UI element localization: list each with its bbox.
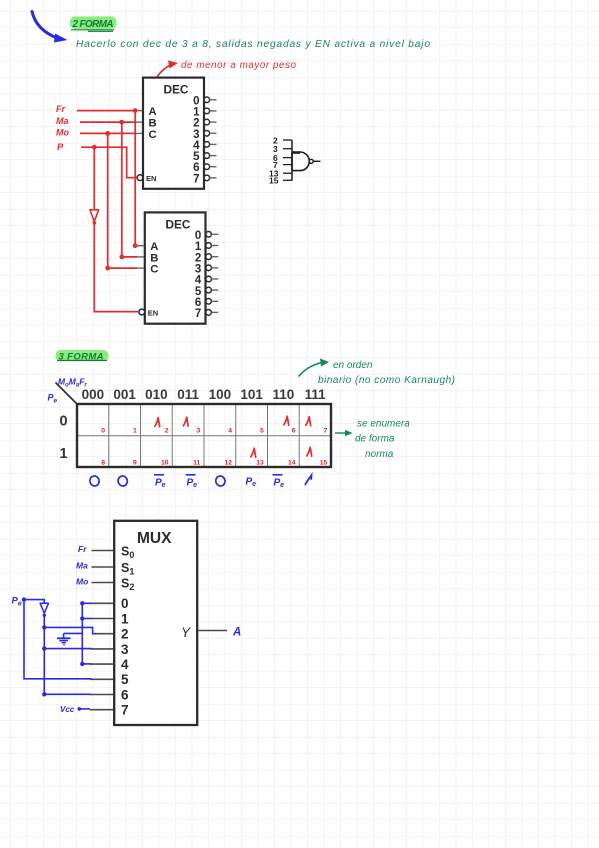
svg-text:101: 101 [240,387,263,402]
node gnd to pin4 [80,662,91,666]
svg-text:001: 001 [113,387,136,402]
svg-text:1: 1 [193,106,200,118]
svg-text:6: 6 [193,162,199,174]
U3 output pin Y [181,625,227,640]
truth table variable label MoMaFr (blue) [58,377,87,389]
column value 1 (col 111) [305,475,311,484]
svg-text:Vcc: Vcc [60,705,75,714]
svg-text:9: 9 [133,459,137,466]
column value /Pe (col 011) [186,475,198,489]
svg-text:2: 2 [193,118,199,130]
svg-text:110: 110 [273,387,295,402]
wire Pe to pin5 [24,600,92,679]
svg-text:15: 15 [320,459,328,466]
net label Vcc (blue) [60,705,75,714]
truth table variable label Pe (blue) [48,393,58,405]
note text: Hacerlo con dec de 3 a 8 [76,39,430,50]
svg-text:7: 7 [324,428,328,435]
mark 1 in cell 2 [155,418,160,427]
inverter (red triangle) on P line [90,210,99,225]
svg-text:DEC: DEC [166,218,191,232]
NAND gate G1 (hand drawn) [292,152,321,171]
wire Ma to U1.B [80,120,136,125]
svg-text:A: A [232,627,241,639]
column value 0 (col 000) [89,475,100,487]
svg-text:12: 12 [224,459,232,466]
svg-text:2: 2 [121,627,129,642]
svg-text:A: A [149,106,157,118]
svg-text:111: 111 [305,387,327,402]
svg-text:1: 1 [60,446,68,462]
svg-text:7: 7 [121,703,129,718]
svg-text:11: 11 [193,459,200,466]
node gnd to pin0 [80,601,91,605]
U3 data pins 0-7 [90,596,129,717]
decoder U1 (DEC 3-to-8, top) [137,78,204,189]
wire Ma vertical to U2.B [119,122,137,259]
svg-text:7: 7 [195,308,201,320]
G1 pin 13 [269,169,292,179]
U2 input stubs A B C [137,246,144,268]
wire /Pe vertical [43,615,45,694]
U2 output pins 0-7 with bubbles [195,230,218,320]
svg-text:EN: EN [148,309,158,318]
svg-text:8: 8 [101,459,105,466]
svg-text:Y: Y [181,625,191,640]
svg-text:Mo: Mo [56,128,69,138]
mark 1 in cell 7 [306,417,311,426]
wire /P to U2.EN [94,223,138,312]
node /Pe to pin3 [42,646,91,650]
cell minterm numbers row 0 [101,428,327,435]
column value Pe (col 101) [246,477,257,489]
svg-text:1: 1 [195,241,202,253]
wire Fr to U1.A [77,108,138,113]
G1 pin 6 [273,153,292,163]
net label Pe (blue) [12,596,22,608]
svg-text:0: 0 [60,414,68,430]
svg-text:Ma: Ma [76,561,88,571]
column value /Pe (col 110) [273,475,285,489]
svg-text:3: 3 [121,642,129,657]
select label Fr (blue) [78,544,87,554]
U3 select pins S0 S1 S2 [92,545,135,593]
wire P vertical to inverter [93,147,95,210]
svg-text:binario (no como Karnaugh): binario (no como Karnaugh) [318,375,455,386]
svg-text:Hacerlo con dec de 3 a 8, sali: Hacerlo con dec de 3 a 8, salidas negada… [76,39,430,50]
ground symbol [57,633,71,644]
svg-text:13: 13 [256,459,264,466]
svg-text:4: 4 [121,657,129,672]
svg-text:010: 010 [145,387,168,402]
wire ground to bus [64,632,83,634]
svg-text:14: 14 [288,459,296,466]
annotation green arrow: en orden binario [299,359,455,387]
G1 pin 2 [273,136,292,146]
note title 2 FORMA (highlighted) [70,17,117,32]
node /Pe to pin2 [42,625,96,634]
signal label Mo (red) [56,128,69,138]
svg-text:0: 0 [101,428,105,435]
svg-text:2 FORMA: 2 FORMA [72,19,114,30]
svg-text:5: 5 [260,428,264,435]
mark 1 in cell 3 [183,417,188,426]
svg-text:C: C [150,264,158,276]
svg-text:de menor a mayor peso: de menor a mayor peso [181,60,297,71]
signal label P (red) [57,142,64,153]
wire Mo to U1.C [80,131,136,136]
ground bus vertical [81,603,83,664]
signal label Fr (red) [56,104,65,114]
svg-text:4: 4 [228,428,232,435]
svg-text:en orden: en orden [333,360,373,371]
truth table grid [77,404,331,467]
wire Pe to inverter [24,600,44,604]
mark 1 in cell 13 [251,448,256,457]
svg-text:C: C [149,129,157,141]
signal label Ma (red) [56,116,69,126]
svg-text:6: 6 [121,687,129,702]
wire Mo vertical to U2.C [105,133,137,270]
mark 1 in cell 15 [307,447,312,456]
svg-text:norma: norma [365,449,394,460]
svg-text:100: 100 [209,387,232,402]
svg-text:se enumera: se enumera [357,419,410,430]
wire Fr vertical to U2.A [133,111,140,249]
wire P to U1.EN (stepped) [81,145,137,178]
multiplexer U3 (MUX 8-to-1) [114,521,197,725]
svg-text:Mo: Mo [76,577,88,587]
svg-text:2: 2 [195,252,201,264]
G1 pin 15 [269,176,292,186]
svg-text:6: 6 [292,428,296,435]
annotation blue arrow [32,12,68,43]
row header 1 [60,446,68,462]
column value /Pe (col 010) [154,475,166,489]
note title 3 FORMA (highlighted) [56,350,109,363]
select label Ma (blue) [76,561,88,571]
svg-text:EN: EN [146,174,156,183]
annotation green arrow: se enumera de forma normal [335,419,410,461]
select label Mo (blue) [76,577,88,587]
node Pe [22,597,26,601]
node /Pe to pin6 [42,692,91,696]
svg-text:10: 10 [161,459,169,466]
svg-text:3: 3 [197,428,201,435]
svg-text:de forma: de forma [355,434,395,445]
svg-text:B: B [149,118,157,130]
svg-text:1: 1 [133,428,137,435]
node gnd to pin1 [80,616,91,620]
svg-text:Fr: Fr [78,544,87,554]
svg-text:Ma: Ma [56,116,69,126]
svg-text:011: 011 [177,387,199,402]
svg-text:000: 000 [82,387,105,402]
svg-text:2: 2 [165,428,169,435]
svg-text:7: 7 [193,173,199,185]
svg-text:6: 6 [195,297,201,309]
svg-text:5: 5 [121,672,129,687]
G1 pin 3 [273,144,292,154]
U1 input stubs A B C [135,111,142,134]
svg-text:P: P [57,142,64,153]
svg-text:DEC: DEC [164,83,189,97]
annotation red arrow: de menor a mayor peso [150,60,297,94]
svg-text:1: 1 [121,611,129,626]
svg-text:0: 0 [195,230,201,242]
G1 pin 7 [273,160,292,170]
U1 output pins 0-7 with bubbles [193,95,216,185]
svg-text:4: 4 [195,275,202,287]
G1 input bus [291,140,293,181]
node Vcc to pin7 [78,707,91,711]
mark 1 in cell 6 [284,416,289,425]
decoder U2 (DEC 3-to-8, bottom) [139,212,206,323]
truth table diagonal [56,383,78,405]
svg-text:Fr: Fr [56,104,65,114]
row header 0 [60,414,68,430]
cell minterm numbers row 1 [101,459,327,466]
svg-text:A: A [150,241,158,253]
svg-text:15: 15 [269,176,279,186]
output net label A (blue) [232,627,241,639]
column headers 000-111 [82,387,326,402]
svg-text:MUX: MUX [137,530,172,547]
svg-text:4: 4 [193,140,200,152]
column value 0 (col 100) [215,475,226,487]
inverter (blue triangle) Pe [40,603,48,617]
svg-text:0: 0 [121,596,129,611]
svg-text:B: B [150,252,158,264]
column value 0 (col 001) [117,475,128,487]
